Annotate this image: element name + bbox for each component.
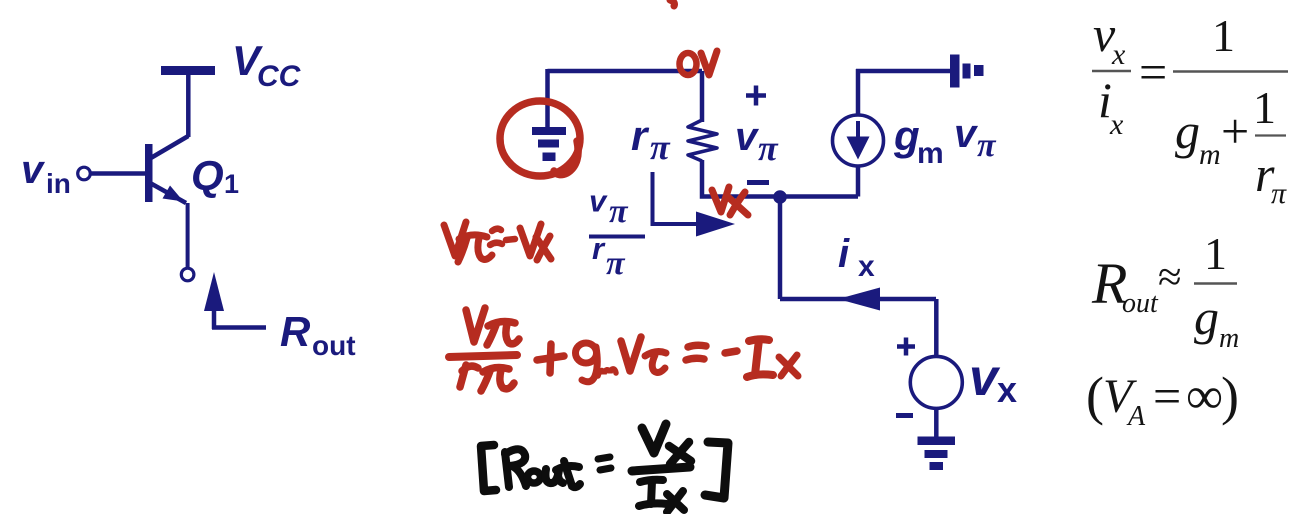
svg-text:π: π (977, 127, 997, 164)
svg-text:x: x (997, 369, 1017, 410)
label minus vx (896, 413, 913, 418)
svg-text:CC: CC (257, 60, 302, 93)
annotation vpi equals -vx red (444, 222, 551, 262)
svg-text:v: v (589, 184, 608, 219)
svg-text:=: = (1139, 44, 1167, 100)
svg-text:x: x (858, 250, 875, 283)
svg-text:g: g (1194, 289, 1219, 345)
svg-text:=: = (1153, 368, 1181, 424)
label vpi (735, 115, 779, 168)
Rout probe arrow (204, 272, 224, 329)
ground G2 (918, 437, 956, 471)
svg-text:1: 1 (1212, 10, 1235, 61)
svg-text:r: r (631, 112, 650, 159)
svg-text:g: g (1175, 103, 1200, 159)
label minus vpi (747, 180, 769, 185)
wire rpi top lead (700, 71, 705, 122)
current source gm vpi (833, 115, 884, 166)
wire rpi bottom lead (702, 160, 776, 197)
svg-text:π: π (650, 127, 671, 167)
wire ix horizontal with arrow (780, 288, 936, 311)
svg-text:i: i (838, 232, 850, 276)
wire node to current source (784, 194, 858, 199)
svg-text:r: r (592, 231, 606, 266)
label Rout (280, 308, 356, 361)
wire ground lead (545, 69, 550, 127)
annotation 0V red (680, 51, 718, 75)
svg-text:1: 1 (224, 169, 239, 199)
red circle annotation around ground (500, 101, 580, 176)
resistor rpi (688, 120, 717, 161)
svg-text:m: m (1199, 138, 1221, 171)
svg-text:∞: ∞ (1186, 368, 1223, 425)
svg-text:in: in (46, 168, 71, 199)
svg-text:+: + (1221, 103, 1249, 159)
svg-text:v: v (954, 112, 979, 156)
svg-text:π: π (606, 245, 626, 282)
svg-text:v: v (735, 115, 760, 159)
svg-text:m: m (917, 137, 944, 170)
label Vcc (232, 37, 302, 93)
wire collector vertical (186, 75, 191, 137)
voltage source vx (910, 356, 962, 408)
label gm vpi (893, 112, 997, 170)
Vcc supply bar (161, 66, 215, 75)
node A junction dot (773, 190, 787, 204)
arrow vpi over rpi current (653, 172, 736, 237)
ground G1 (532, 127, 566, 161)
annotation black equation Rout = vx/ix (481, 424, 728, 512)
wire Rout probe (212, 325, 266, 330)
wire top middle (548, 69, 703, 74)
svg-text:A: A (1126, 401, 1146, 432)
svg-text:x: x (1111, 38, 1126, 71)
wire current source bottom lead (856, 166, 861, 197)
wire source to ac rail (856, 69, 950, 74)
wire vx source top lead (934, 299, 939, 357)
label plus vx (897, 338, 915, 356)
svg-text:out: out (1122, 288, 1159, 319)
label vx source (969, 349, 1017, 410)
wire emitter vertical (186, 203, 190, 268)
svg-text:v: v (21, 148, 46, 192)
label Q1 (191, 152, 239, 200)
svg-text:(: ( (1086, 366, 1104, 426)
output terminal (181, 268, 194, 281)
svg-text:m: m (1219, 323, 1239, 354)
svg-text:g: g (893, 112, 920, 159)
svg-text:1: 1 (1204, 228, 1227, 279)
red stroke cut off at top edge (670, 0, 675, 6)
label rpi (631, 112, 671, 167)
annotation vx red at node (712, 187, 748, 215)
annotation red equation vpi/rpi + gm vpi = -ix (449, 308, 798, 391)
svg-text:Q: Q (191, 152, 224, 200)
wire node down (778, 203, 783, 299)
wire vx source bottom lead (934, 408, 939, 437)
transistor Q1 (145, 136, 188, 203)
svg-text:1: 1 (1253, 82, 1276, 133)
svg-text:π: π (609, 193, 629, 230)
wire base (91, 171, 145, 176)
label plus vpi (746, 86, 766, 106)
svg-text:x: x (1109, 108, 1124, 141)
svg-text:R: R (280, 308, 311, 355)
wire current source top lead (856, 69, 861, 115)
formula vx over ix equals one over gm plus one over rpi (1092, 6, 1288, 210)
formula Rout approx one over gm (1091, 228, 1239, 354)
svg-text:π: π (758, 128, 779, 168)
svg-text:≈: ≈ (1158, 254, 1182, 301)
svg-text:): ) (1221, 366, 1239, 426)
svg-text:out: out (312, 330, 356, 361)
svg-text:π: π (1271, 177, 1287, 210)
formula VA equals infinity (1086, 366, 1239, 432)
label fraction vpi/rpi (589, 184, 645, 283)
label vin (21, 148, 71, 199)
ac ground rail symbol (950, 55, 984, 88)
input terminal (78, 167, 91, 180)
label ix (838, 232, 875, 283)
